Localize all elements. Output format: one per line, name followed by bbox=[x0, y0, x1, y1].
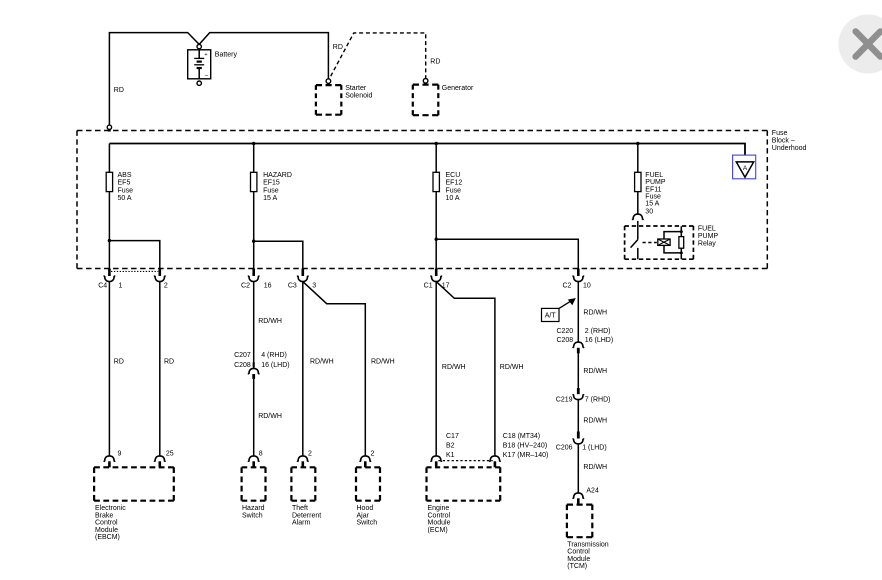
ECM pin terminal (C18/B18/K17) bbox=[489, 456, 500, 462]
svg-text:FUEL: FUEL bbox=[645, 172, 663, 179]
wire: branch to pin 2 bbox=[109, 241, 159, 269]
svg-text:RD: RD bbox=[114, 358, 124, 365]
svg-text:2: 2 bbox=[308, 450, 312, 457]
svg-text:Engine: Engine bbox=[428, 505, 450, 512]
svg-text:9: 9 bbox=[118, 450, 122, 457]
svg-text:C206: C206 bbox=[556, 445, 573, 452]
wire: relay switch contact bbox=[637, 221, 639, 240]
hazard switch pin 8 terminal bbox=[248, 456, 259, 462]
connector C4 body (dotted bridge pins 1-2) bbox=[111, 270, 158, 272]
svg-text:Switch: Switch bbox=[357, 520, 378, 527]
starter solenoid terminal bbox=[326, 79, 331, 84]
A/T callout arrow bbox=[559, 301, 572, 309]
svg-text:C3: C3 bbox=[288, 282, 297, 289]
wire: RD/WH to C206 bbox=[577, 400, 579, 432]
svg-text:1 (LHD): 1 (LHD) bbox=[582, 445, 607, 452]
svg-text:Switch: Switch bbox=[242, 512, 263, 519]
svg-text:RD: RD bbox=[430, 58, 440, 65]
svg-text:Solenoid: Solenoid bbox=[345, 92, 372, 99]
fuse EF15 (HAZARD 15 A) bbox=[251, 172, 257, 191]
svg-text:K17 (MR–140): K17 (MR–140) bbox=[503, 452, 549, 459]
svg-text:Fuse: Fuse bbox=[446, 187, 462, 194]
svg-text:Generator: Generator bbox=[442, 85, 474, 92]
svg-text:(EBCM): (EBCM) bbox=[95, 534, 120, 541]
svg-text:15 A: 15 A bbox=[263, 195, 277, 202]
svg-text:Ajar: Ajar bbox=[357, 512, 370, 519]
svg-text:2: 2 bbox=[371, 450, 375, 457]
svg-text:ECU: ECU bbox=[446, 172, 461, 179]
svg-text:10: 10 bbox=[583, 282, 591, 289]
connector pin at x=109.4 bbox=[108, 269, 111, 277]
svg-text:RD/WH: RD/WH bbox=[583, 417, 607, 424]
wire: ECU fuse drop bbox=[435, 144, 437, 173]
svg-text:Hazard: Hazard bbox=[242, 505, 265, 512]
wire: RD/WH branch to hood ajar switch pin 2 bbox=[303, 282, 366, 456]
battery negative terminal bbox=[197, 81, 201, 85]
svg-text:(ECM): (ECM) bbox=[428, 527, 448, 534]
relay pin 30 socket bbox=[632, 214, 643, 220]
svg-text:Theft: Theft bbox=[292, 505, 308, 512]
node: HAZARD branch junction bbox=[252, 240, 255, 243]
svg-text:A24: A24 bbox=[586, 488, 599, 495]
svg-text:Module: Module bbox=[95, 527, 118, 534]
fuse block entry terminal on left feed wire bbox=[107, 125, 111, 129]
theft deterrent alarm (dashed box) bbox=[291, 466, 315, 468]
electronic brake control module (dashed box) bbox=[94, 466, 174, 468]
svg-text:C219: C219 bbox=[556, 397, 573, 404]
in-line connector C220/C208 bbox=[573, 342, 584, 348]
svg-text:16 (LHD): 16 (LHD) bbox=[585, 337, 613, 344]
svg-text:RD: RD bbox=[333, 44, 343, 51]
svg-text:Fuse: Fuse bbox=[645, 193, 661, 200]
svg-text:C207: C207 bbox=[234, 352, 251, 359]
wire: RD/WH to in-line connector C207/C208 bbox=[253, 282, 255, 369]
svg-text:RD/WH: RD/WH bbox=[583, 368, 607, 375]
svg-text:C208: C208 bbox=[234, 362, 251, 369]
theft deterrent alarm pin 2 terminal bbox=[297, 456, 308, 462]
svg-text:Control: Control bbox=[567, 549, 590, 556]
wire: RD/WH to TCM pin A24 bbox=[577, 444, 579, 493]
svg-text:(TCM): (TCM) bbox=[567, 563, 587, 570]
svg-text:Starter: Starter bbox=[345, 85, 367, 92]
ECM pin terminal (C17/B2/K1) bbox=[431, 456, 442, 462]
svg-text:Fuse: Fuse bbox=[118, 187, 134, 194]
wire: RD/WH to hazard switch pin 8 bbox=[253, 379, 255, 456]
relay coil bbox=[658, 239, 670, 245]
svg-text:Brake: Brake bbox=[95, 512, 113, 519]
svg-text:Battery: Battery bbox=[215, 52, 238, 59]
wire: RD to EBCM pin 25 bbox=[159, 282, 161, 456]
generator (dashed box) bbox=[413, 83, 439, 85]
wire: RD/WH to C219 bbox=[577, 353, 579, 388]
connector pin at x=578.3 bbox=[577, 269, 580, 277]
svg-text:4 (RHD): 4 (RHD) bbox=[261, 352, 287, 359]
svg-text:Control: Control bbox=[428, 512, 451, 519]
ECM connector body (dotted bridge) bbox=[438, 460, 492, 462]
svg-text:+: + bbox=[204, 52, 207, 58]
wire: ABS fuse drop bbox=[108, 144, 110, 173]
wire: RD/WH branch to ECM pin C18/B18/K17 bbox=[436, 282, 495, 456]
svg-text:1: 1 bbox=[119, 282, 123, 289]
svg-text:2: 2 bbox=[164, 282, 168, 289]
svg-text:RD/WH: RD/WH bbox=[583, 310, 607, 317]
wire: bus bar inside fuse block bbox=[109, 144, 745, 162]
svg-text:7 (RHD): 7 (RHD) bbox=[585, 397, 611, 404]
wire: dashed RD link starter solenoid to generator bbox=[331, 33, 426, 78]
wire: RD/WH to theft deterrent alarm pin 2 bbox=[302, 282, 304, 456]
wire: coil bottom rail bbox=[664, 245, 681, 259]
fuse EF12 (ECU 10 A) bbox=[433, 172, 439, 191]
svg-text:10 A: 10 A bbox=[446, 195, 460, 202]
off-page reference A (link box) bbox=[733, 155, 756, 179]
in-line connector C207/C208 bbox=[253, 362, 255, 367]
node: coil/resistor top bbox=[680, 230, 683, 233]
svg-text:Fuse: Fuse bbox=[263, 187, 279, 194]
svg-text:A: A bbox=[743, 165, 748, 172]
battery B+ terminal bbox=[197, 44, 201, 48]
in-line connector C206 bbox=[577, 432, 580, 439]
svg-text:16 (LHD): 16 (LHD) bbox=[261, 362, 289, 369]
fuse EF5 (ABS 50 A) bbox=[106, 172, 112, 191]
svg-text:C1: C1 bbox=[424, 282, 433, 289]
svg-text:RD/WH: RD/WH bbox=[442, 364, 466, 371]
node: coil/resistor bottom bbox=[680, 251, 683, 254]
svg-text:RD/WH: RD/WH bbox=[258, 413, 282, 420]
relay switch blade bbox=[631, 240, 638, 248]
svg-text:Block –: Block – bbox=[772, 138, 795, 145]
starter solenoid (dashed box) bbox=[316, 84, 341, 86]
A/T callout box bbox=[542, 308, 560, 321]
svg-text:PUMP: PUMP bbox=[645, 179, 666, 186]
svg-text:Underhood: Underhood bbox=[772, 145, 807, 152]
TCM pin A24 terminal bbox=[573, 493, 584, 499]
svg-text:B2: B2 bbox=[446, 443, 455, 450]
connector pin at x=159.8 bbox=[159, 269, 162, 277]
wire: FUEL PUMP fuse drop bbox=[637, 144, 639, 173]
node: bus junction at ECU fuse bbox=[435, 142, 438, 145]
svg-text:Hood: Hood bbox=[357, 505, 374, 512]
svg-text:C2: C2 bbox=[241, 282, 250, 289]
svg-text:8: 8 bbox=[259, 450, 263, 457]
wire: main battery feed (RD) from battery junction to fuse block and starter solenoid bbox=[109, 33, 199, 126]
EBCM pin 25 terminal bbox=[154, 456, 165, 462]
svg-text:RD/WH: RD/WH bbox=[310, 358, 334, 365]
svg-text:RD: RD bbox=[164, 358, 174, 365]
svg-text:Module: Module bbox=[567, 556, 590, 563]
svg-text:3: 3 bbox=[312, 282, 316, 289]
wire: HAZARD fuse drop bbox=[253, 144, 255, 173]
svg-text:RD/WH: RD/WH bbox=[583, 464, 607, 471]
svg-text:B18 (HV–240): B18 (HV–240) bbox=[503, 443, 547, 450]
svg-text:ABS: ABS bbox=[118, 172, 132, 179]
node: bus junction at hazard fuse bbox=[252, 142, 255, 145]
svg-text:FUEL: FUEL bbox=[698, 226, 716, 233]
battery BAT1 bbox=[188, 50, 211, 79]
fuse block - underhood (dashed enclosure) bbox=[77, 130, 767, 132]
relay resistor bbox=[679, 237, 684, 249]
svg-text:2 (RHD): 2 (RHD) bbox=[585, 328, 611, 335]
fuse EF11 (FUEL PUMP 15 A) bbox=[635, 172, 641, 191]
engine control module (dashed box) bbox=[427, 466, 501, 468]
connector pin at x=302.8 bbox=[302, 269, 305, 277]
svg-text:EF12: EF12 bbox=[446, 180, 463, 187]
svg-text:C2: C2 bbox=[562, 282, 571, 289]
svg-text:Electronic: Electronic bbox=[95, 505, 126, 512]
svg-text:K1: K1 bbox=[446, 452, 455, 459]
svg-text:HAZARD: HAZARD bbox=[263, 172, 292, 179]
wire: RD to EBCM pin 9 bbox=[108, 282, 110, 456]
svg-text:RD/WH: RD/WH bbox=[500, 364, 524, 371]
hood ajar switch (dashed box) bbox=[356, 466, 380, 468]
svg-text:RD/WH: RD/WH bbox=[258, 318, 282, 325]
svg-text:C208: C208 bbox=[556, 337, 573, 344]
svg-text:Module: Module bbox=[428, 520, 451, 527]
wire: branch to pin C3-3 bbox=[254, 241, 303, 268]
wire: branch to pin C2-10 bbox=[436, 239, 578, 268]
wire: RD/WH from C2-10 to C220/C208 bbox=[577, 282, 579, 342]
svg-text:16: 16 bbox=[264, 282, 272, 289]
svg-text:Relay: Relay bbox=[698, 241, 716, 248]
svg-text:C4: C4 bbox=[98, 282, 107, 289]
transmission control module (dashed box) bbox=[567, 504, 592, 506]
hood ajar switch pin 2 terminal bbox=[360, 456, 371, 462]
node: bus junction at fuel pump fuse bbox=[636, 142, 639, 145]
wire: RD/WH to ECM pin C17/B2/K1 bbox=[435, 282, 437, 456]
svg-text:PUMP: PUMP bbox=[698, 233, 719, 240]
svg-text:EF11: EF11 bbox=[645, 186, 661, 193]
connector pin at x=436.2 bbox=[435, 269, 438, 277]
in-line connector C219 bbox=[577, 388, 580, 394]
svg-text:C18 (MT34): C18 (MT34) bbox=[503, 433, 540, 440]
wire: relay switch output bbox=[637, 248, 639, 259]
svg-text:RD: RD bbox=[114, 87, 124, 94]
EBCM pin 9 terminal bbox=[104, 456, 115, 462]
svg-text:A/T: A/T bbox=[545, 312, 557, 319]
svg-text:EF5: EF5 bbox=[118, 180, 131, 187]
fuel pump relay (dashed box) bbox=[625, 225, 694, 227]
svg-text:Control: Control bbox=[95, 520, 118, 527]
close button bbox=[839, 15, 882, 74]
svg-text:Deterrent: Deterrent bbox=[292, 512, 321, 519]
svg-text:C17: C17 bbox=[446, 433, 459, 440]
svg-text:Transmission: Transmission bbox=[567, 542, 608, 549]
svg-text:50 A: 50 A bbox=[118, 195, 132, 202]
svg-text:25: 25 bbox=[166, 450, 174, 457]
svg-text:EF15: EF15 bbox=[263, 180, 280, 187]
relay actuator dashed link bbox=[643, 242, 657, 244]
svg-text:15 A: 15 A bbox=[645, 201, 659, 208]
svg-text:RD/WH: RD/WH bbox=[371, 358, 395, 365]
hazard switch (dashed box) bbox=[242, 466, 266, 468]
node: ECU branch junction bbox=[435, 238, 438, 241]
svg-text:Fuse: Fuse bbox=[772, 130, 788, 137]
svg-text:30: 30 bbox=[645, 209, 653, 216]
connector pin at x=253.7 bbox=[252, 269, 255, 277]
svg-text:C220: C220 bbox=[556, 328, 573, 335]
generator terminal bbox=[423, 79, 428, 84]
svg-text:Alarm: Alarm bbox=[292, 520, 310, 527]
node: ABS branch junction bbox=[108, 239, 111, 242]
wire: coil top rail bbox=[664, 226, 681, 239]
